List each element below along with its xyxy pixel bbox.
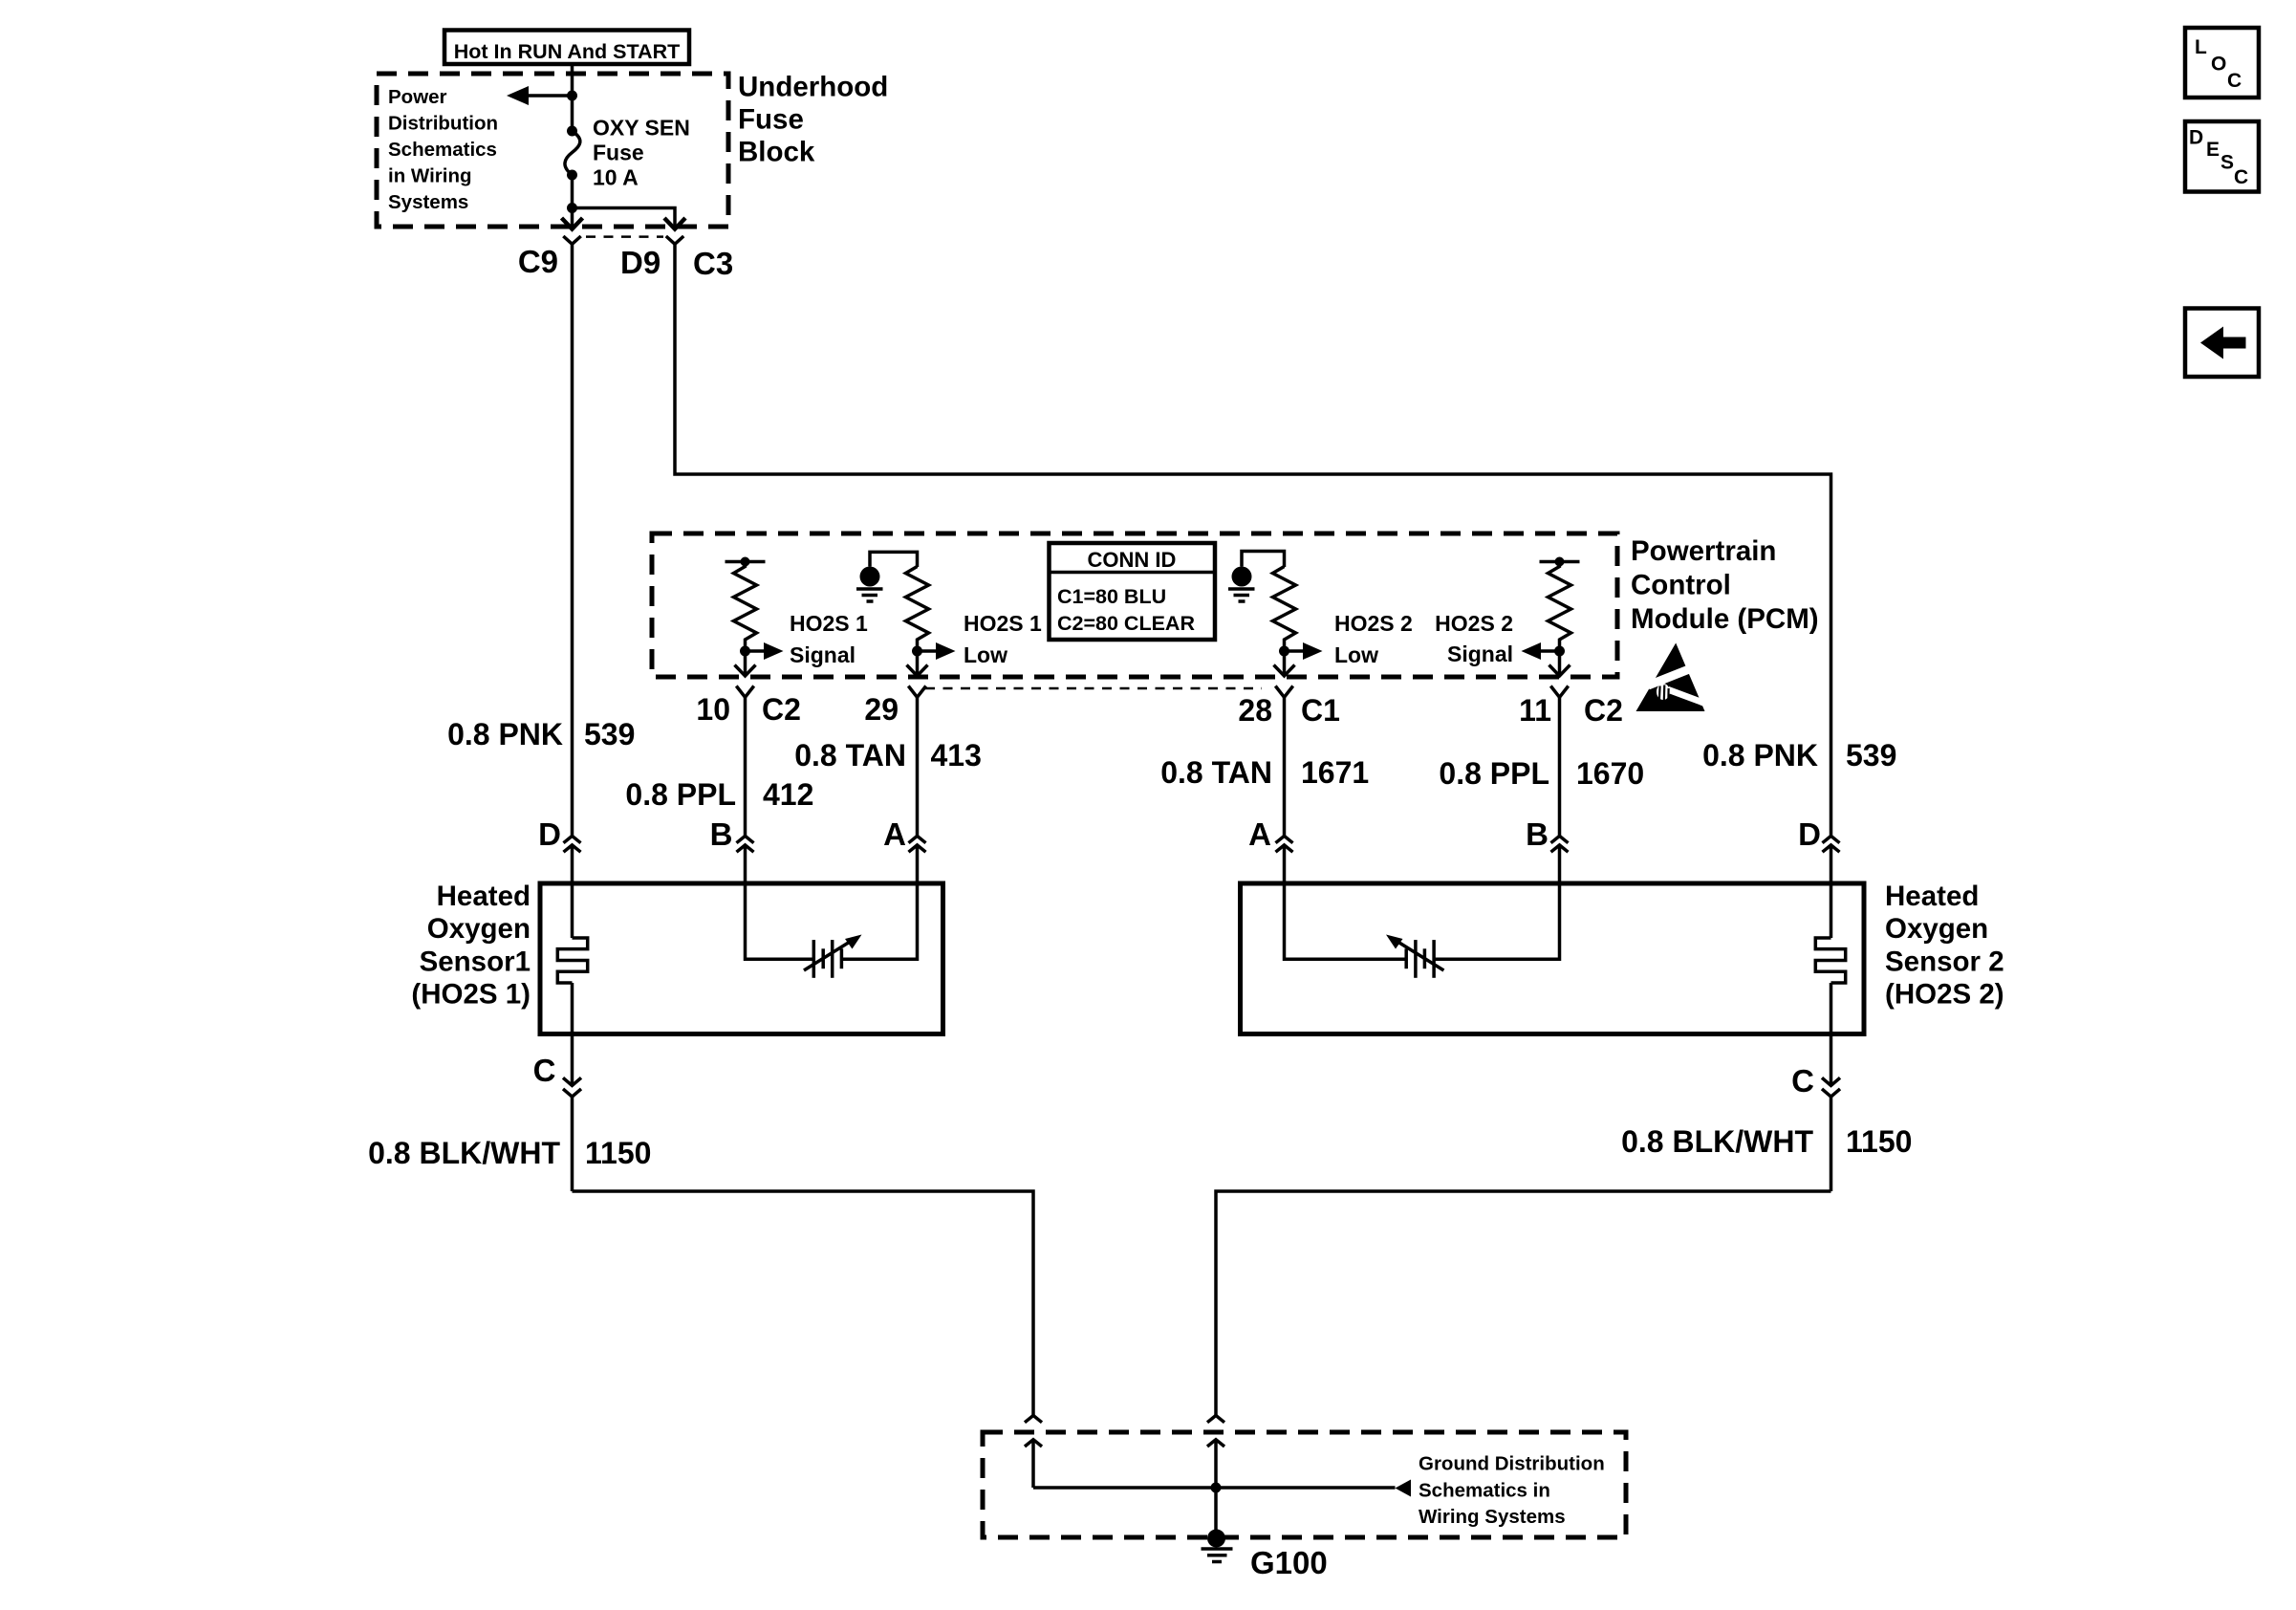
connector into ground box left bbox=[1025, 1416, 1042, 1489]
wire 0.8 PPL 1670 (pin11 to HO2S2 B) bbox=[1558, 697, 1562, 836]
svg-text:Module (PCM): Module (PCM) bbox=[1631, 603, 1819, 635]
svg-text:28: 28 bbox=[1238, 693, 1272, 728]
ground distribution dashed box bbox=[983, 1432, 1626, 1537]
svg-text:CONN ID: CONN ID bbox=[1088, 548, 1177, 572]
svg-text:C9: C9 bbox=[518, 244, 558, 279]
resistor HO2S1 signal (pin 10) bbox=[726, 557, 766, 657]
svg-text:C3: C3 bbox=[693, 246, 733, 281]
label Heated Oxygen Sensor1 (HO2S 1) bbox=[411, 881, 531, 1011]
svg-text:0.8 TAN: 0.8 TAN bbox=[794, 738, 906, 772]
Heated Oxygen Sensor 1 box bbox=[540, 883, 943, 1034]
wire HO2S1 C to ground box bbox=[573, 1191, 1034, 1416]
svg-text:A: A bbox=[883, 816, 906, 852]
wire 0.8 TAN 1671 (pin28 to HO2S2 A) bbox=[1283, 697, 1287, 836]
fuse OXY SEN 10 A bbox=[565, 126, 580, 181]
label 0.8 TAN 413 bbox=[794, 738, 982, 772]
arrow HO2S 2 Low bbox=[1285, 611, 1413, 667]
sensing element HO2S1 bbox=[746, 883, 918, 978]
wire pin28 exit arrow bbox=[1274, 651, 1295, 676]
svg-text:Schematics in: Schematics in bbox=[1419, 1480, 1550, 1502]
ground G100 bbox=[1202, 1488, 1328, 1580]
svg-text:Low: Low bbox=[964, 642, 1007, 667]
svg-text:Ground Distribution: Ground Distribution bbox=[1419, 1453, 1605, 1475]
arrow into C3 bbox=[664, 218, 685, 229]
svg-text:Signal: Signal bbox=[790, 642, 856, 667]
svg-text:HO2S 2: HO2S 2 bbox=[1435, 611, 1513, 636]
Underhood Fuse Block dashed box bbox=[377, 74, 728, 227]
arrow HO2S 1 Low bbox=[918, 611, 1043, 667]
svg-text:1150: 1150 bbox=[585, 1136, 651, 1170]
wire from header box down to fuse bbox=[571, 64, 574, 131]
note Ground Distribution Schematics in Wiring Systems bbox=[1419, 1453, 1605, 1529]
dashed connector face C2-C1 bbox=[925, 687, 1262, 690]
ground bus wire and off-page arrow bbox=[1033, 1480, 1411, 1497]
svg-text:1670: 1670 bbox=[1576, 756, 1644, 791]
svg-text:Powertrain: Powertrain bbox=[1631, 535, 1776, 567]
svg-text:539: 539 bbox=[1846, 738, 1896, 772]
connector D at HO2S2 bbox=[1798, 816, 1839, 883]
svg-text:10: 10 bbox=[696, 692, 730, 727]
wire C exit HO2S1 bbox=[533, 1034, 581, 1192]
label 0.8 TAN 1671 bbox=[1160, 755, 1369, 790]
note Power Distribution Schematics in Wiring Systems bbox=[388, 86, 498, 213]
svg-text:(HO2S 1): (HO2S 1) bbox=[411, 979, 531, 1011]
LOC box bbox=[2185, 28, 2259, 98]
connector D9 dashed link bbox=[586, 237, 663, 280]
svg-text:C1: C1 bbox=[1301, 693, 1340, 728]
svg-text:G100: G100 bbox=[1250, 1545, 1328, 1580]
svg-text:Sensor1: Sensor1 bbox=[420, 946, 531, 978]
svg-text:O: O bbox=[2211, 54, 2226, 76]
svg-text:Underhood: Underhood bbox=[738, 72, 888, 103]
wire pin10 exit arrow bbox=[735, 651, 756, 676]
svg-text:Power: Power bbox=[388, 86, 447, 108]
svg-text:10 A: 10 A bbox=[593, 165, 639, 190]
wire pin29 exit arrow bbox=[907, 651, 928, 676]
wire HO2S2 C to ground box bbox=[1216, 1191, 1831, 1416]
svg-text:11: 11 bbox=[1519, 693, 1551, 728]
svg-text:Heated: Heated bbox=[437, 881, 531, 912]
svg-text:A: A bbox=[1248, 816, 1271, 852]
heater element HO2S2 bbox=[1815, 883, 1845, 1034]
label Underhood Fuse Block bbox=[738, 72, 888, 168]
svg-text:Wiring Systems: Wiring Systems bbox=[1419, 1506, 1566, 1528]
arrow into C9 bbox=[562, 218, 583, 229]
back arrow box bbox=[2185, 309, 2259, 378]
arrow HO2S 2 Signal bbox=[1435, 611, 1559, 666]
sensing element HO2S2 bbox=[1285, 883, 1560, 978]
arrow HO2S 1 Signal bbox=[746, 611, 869, 667]
DESC box bbox=[2185, 121, 2259, 192]
label 0.8 PPL 1670 bbox=[1439, 756, 1644, 791]
svg-text:Systems: Systems bbox=[388, 191, 468, 213]
wire 0.8 PNK 539 right (C3 to HO2S2 D) bbox=[675, 244, 1831, 836]
Heated Oxygen Sensor 2 box bbox=[1241, 883, 1865, 1034]
svg-text:B: B bbox=[1526, 816, 1549, 852]
svg-text:D: D bbox=[1798, 816, 1821, 852]
svg-text:HO2S 2: HO2S 2 bbox=[1334, 611, 1413, 636]
connector B at HO2S1 bbox=[710, 816, 754, 883]
off-page arrow to power distribution bbox=[507, 86, 577, 105]
resistor HO2S1 low (pin 29) bbox=[906, 567, 929, 657]
svg-text:412: 412 bbox=[763, 777, 813, 812]
svg-text:OXY SEN: OXY SEN bbox=[593, 116, 690, 141]
wire C exit HO2S2 bbox=[1791, 1034, 1840, 1192]
svg-text:Fuse: Fuse bbox=[593, 141, 644, 165]
svg-text:D: D bbox=[538, 816, 561, 852]
svg-text:0.8 PNK: 0.8 PNK bbox=[447, 717, 563, 751]
svg-text:B: B bbox=[710, 816, 733, 852]
svg-text:D: D bbox=[2189, 127, 2203, 149]
svg-text:Distribution: Distribution bbox=[388, 113, 498, 135]
connector pin 10 C2 bbox=[696, 686, 801, 728]
ground symbol in PCM (left) bbox=[856, 552, 918, 601]
svg-text:D9: D9 bbox=[620, 245, 661, 280]
wire from fuse to junction and C3 branch bbox=[567, 175, 675, 218]
svg-text:C2: C2 bbox=[1584, 693, 1623, 728]
svg-text:Schematics: Schematics bbox=[388, 139, 497, 161]
svg-text:1671: 1671 bbox=[1301, 755, 1369, 790]
Powertrain Control Module dashed box bbox=[652, 533, 1617, 677]
label 0.8 BLK/WHT 1150 left bbox=[368, 1136, 651, 1170]
svg-text:C: C bbox=[1791, 1063, 1814, 1099]
svg-text:Oxygen: Oxygen bbox=[427, 913, 531, 945]
svg-text:L: L bbox=[2195, 36, 2207, 58]
CONN ID table bbox=[1050, 543, 1216, 640]
svg-text:Sensor 2: Sensor 2 bbox=[1885, 946, 2004, 978]
connector into ground box right bbox=[1207, 1416, 1224, 1489]
wire 0.8 PNK 539 left (C9 to HO2S1 D) bbox=[571, 244, 574, 836]
label Heated Oxygen Sensor 2 (HO2S 2) bbox=[1885, 881, 2004, 1011]
wire 0.8 PPL 412 (pin10 to HO2S1 B) bbox=[744, 697, 747, 836]
svg-text:C: C bbox=[2227, 70, 2242, 92]
label Powertrain Control Module (PCM) bbox=[1631, 535, 1819, 635]
label 0.8 PNK 539 right bbox=[1702, 738, 1896, 772]
svg-text:Low: Low bbox=[1334, 642, 1378, 667]
svg-text:Oxygen: Oxygen bbox=[1885, 913, 1988, 945]
resistor HO2S2 low (pin 28) bbox=[1273, 567, 1296, 657]
svg-text:in Wiring: in Wiring bbox=[388, 165, 472, 187]
svg-text:S: S bbox=[2220, 152, 2234, 174]
label 0.8 BLK/WHT 1150 right bbox=[1621, 1124, 1912, 1159]
svg-text:Block: Block bbox=[738, 137, 815, 168]
svg-text:0.8 PNK: 0.8 PNK bbox=[1702, 738, 1818, 772]
svg-text:0.8 TAN: 0.8 TAN bbox=[1160, 755, 1272, 790]
wire 0.8 TAN 413 (pin29 to HO2S1 A) bbox=[916, 697, 920, 836]
label OXY SEN Fuse 10 A bbox=[593, 116, 690, 190]
connector A at HO2S2 bbox=[1248, 816, 1292, 883]
svg-text:0.8 PPL: 0.8 PPL bbox=[1439, 756, 1549, 791]
svg-text:539: 539 bbox=[584, 717, 635, 751]
svg-text:C2: C2 bbox=[762, 692, 801, 727]
svg-text:Heated: Heated bbox=[1885, 881, 1979, 912]
connector A at HO2S1 bbox=[883, 816, 925, 883]
svg-text:Fuse: Fuse bbox=[738, 104, 804, 136]
svg-text:HO2S 1: HO2S 1 bbox=[790, 611, 868, 636]
connector C3 bbox=[666, 236, 733, 281]
svg-text:413: 413 bbox=[931, 738, 982, 772]
label 0.8 PNK 539 left bbox=[447, 717, 635, 751]
svg-text:Signal: Signal bbox=[1447, 642, 1513, 666]
svg-text:Hot In RUN And START: Hot In RUN And START bbox=[454, 40, 680, 63]
label 0.8 PPL 412 bbox=[625, 777, 813, 812]
svg-text:(HO2S 2): (HO2S 2) bbox=[1885, 979, 2004, 1011]
svg-text:HO2S 1: HO2S 1 bbox=[964, 611, 1042, 636]
connector C9 bbox=[518, 236, 581, 279]
connector B at HO2S2 bbox=[1526, 816, 1568, 883]
ground symbol in PCM (right) bbox=[1228, 552, 1285, 602]
svg-text:C2=80 CLEAR: C2=80 CLEAR bbox=[1057, 612, 1195, 635]
connector pin 29 bbox=[864, 686, 925, 728]
connector pin 28 C1 bbox=[1238, 686, 1340, 729]
svg-text:0.8 BLK/WHT: 0.8 BLK/WHT bbox=[1621, 1124, 1813, 1159]
svg-text:C: C bbox=[533, 1053, 556, 1088]
ESD sensitive device symbol bbox=[1636, 643, 1711, 712]
svg-text:0.8 PPL: 0.8 PPL bbox=[625, 777, 736, 812]
wire pin11 exit arrow bbox=[1549, 651, 1570, 676]
heater element HO2S1 bbox=[557, 883, 587, 1034]
header box Hot In RUN And START bbox=[444, 31, 689, 65]
svg-text:C: C bbox=[2234, 166, 2248, 188]
resistor HO2S2 signal (pin 11) bbox=[1540, 557, 1580, 657]
svg-text:Control: Control bbox=[1631, 570, 1731, 601]
svg-text:E: E bbox=[2206, 139, 2220, 161]
svg-text:29: 29 bbox=[864, 692, 899, 727]
svg-text:0.8 BLK/WHT: 0.8 BLK/WHT bbox=[368, 1136, 560, 1170]
svg-text:1150: 1150 bbox=[1846, 1124, 1912, 1159]
svg-text:C1=80 BLU: C1=80 BLU bbox=[1057, 585, 1166, 608]
connector D at HO2S1 bbox=[538, 816, 580, 883]
connector pin 11 C2 bbox=[1519, 686, 1623, 729]
